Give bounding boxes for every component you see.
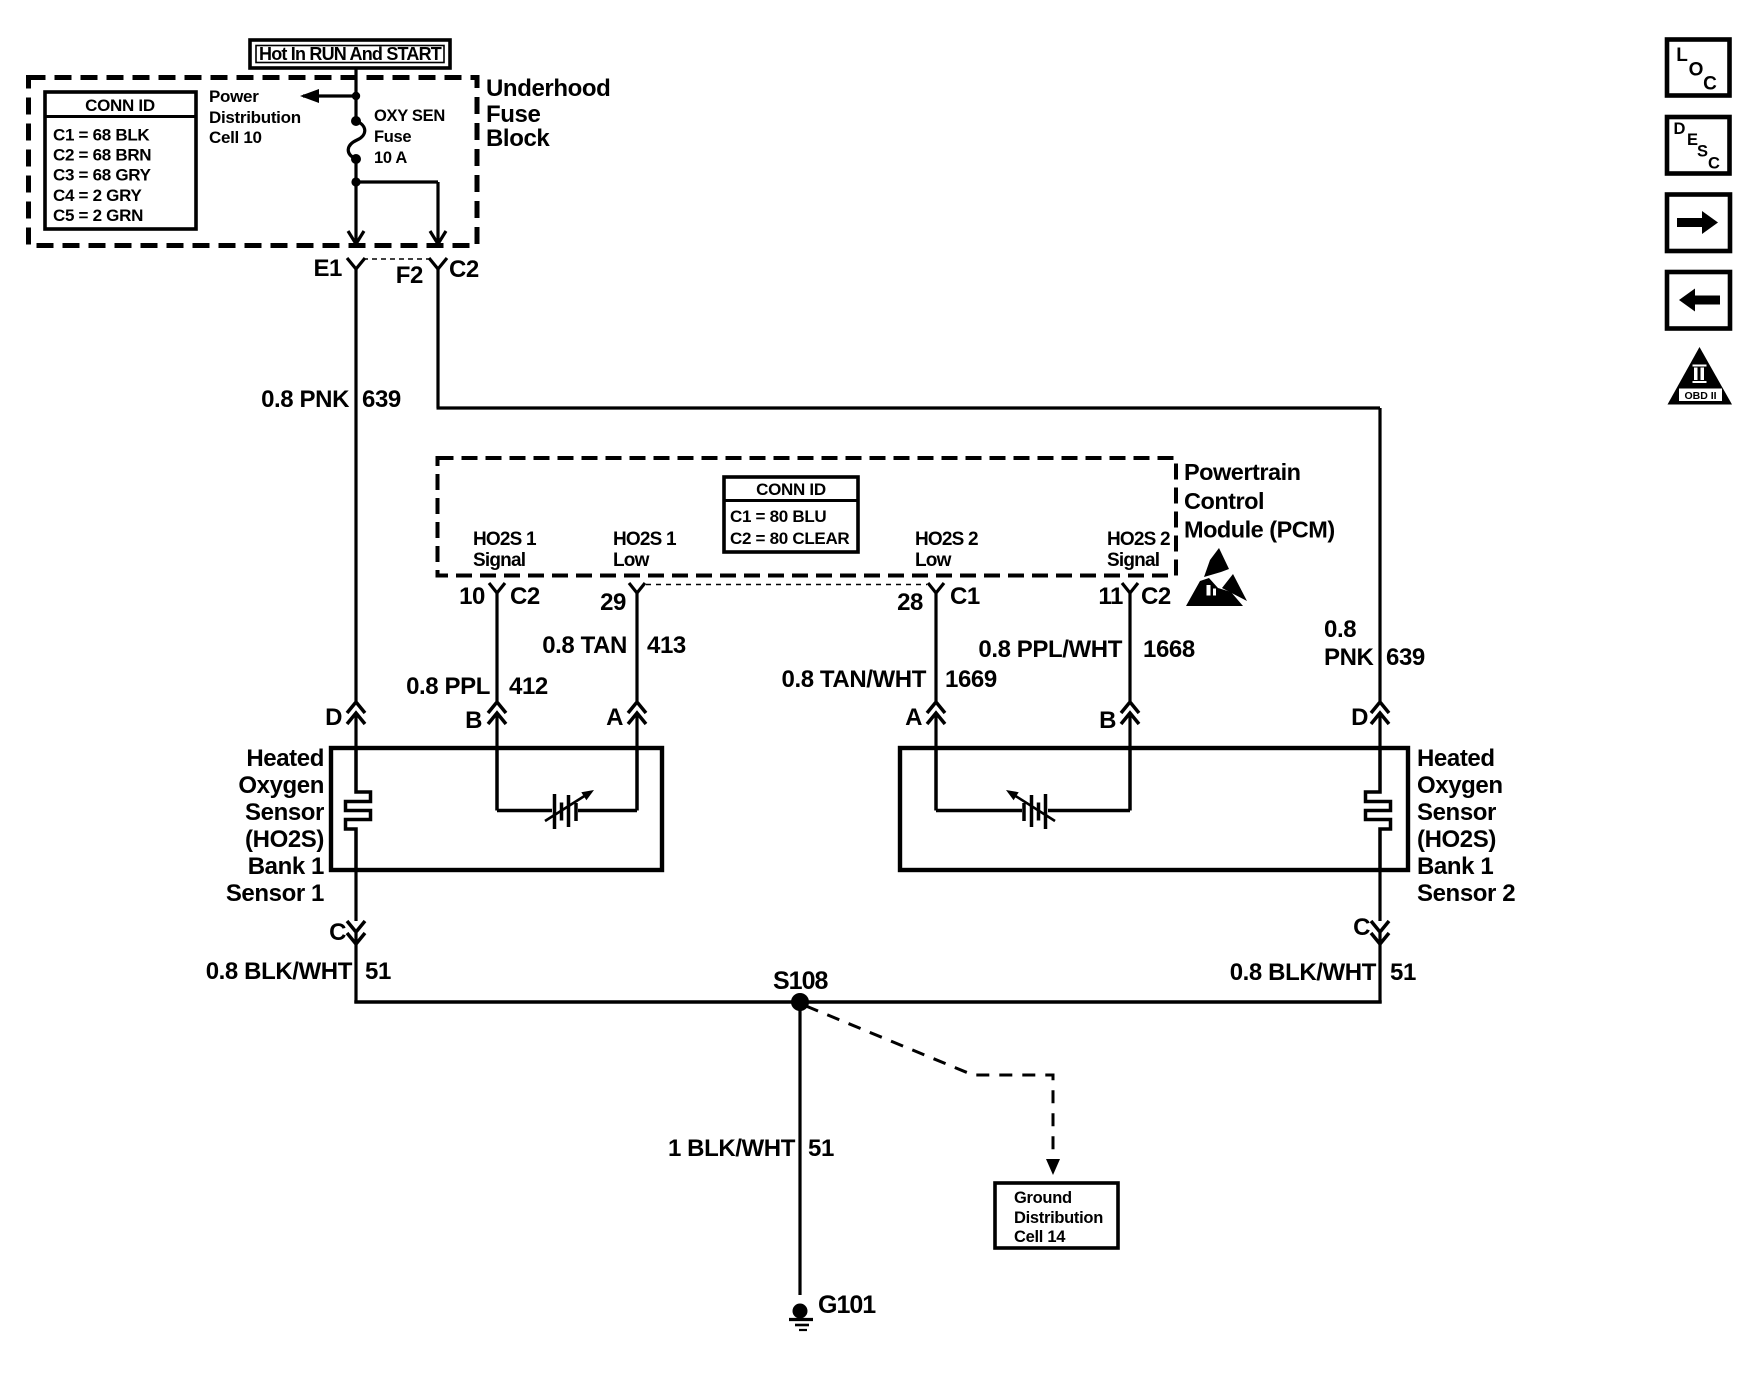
svg-text:D: D [325, 704, 342, 731]
svg-text:Ground: Ground [1014, 1189, 1072, 1207]
wire 0.8 PPL/WHT 1668 [978, 601, 1194, 701]
svg-text:Fuse: Fuse [486, 101, 540, 128]
ESD sensitivity symbol [1186, 548, 1247, 606]
svg-text:A: A [905, 704, 922, 731]
svg-text:Cell 10: Cell 10 [209, 128, 262, 147]
svg-text:0.8 BLK/WHT: 0.8 BLK/WHT [1230, 959, 1377, 986]
svg-text:Block: Block [486, 125, 550, 152]
svg-text:Sensor: Sensor [245, 799, 324, 826]
Underhood Fuse Block dashed enclosure [29, 78, 478, 246]
splice S108 [773, 967, 828, 1011]
right HO2S labels [1417, 745, 1515, 907]
svg-text:C2 = 68 BRN: C2 = 68 BRN [53, 146, 151, 165]
wire from Hot feed down [354, 67, 357, 121]
heater element (left sensor) [346, 749, 371, 870]
svg-text:Sensor: Sensor [1417, 799, 1496, 826]
svg-text:Heated: Heated [246, 745, 324, 772]
connector ID table (fuse block) [45, 92, 196, 229]
svg-text:Oxygen: Oxygen [1417, 772, 1503, 799]
connector C (right sensor) [1353, 870, 1389, 1003]
svg-text:L: L [1676, 45, 1688, 66]
svg-text:Fuse: Fuse [374, 128, 411, 146]
wire arrow to Power Distribution [300, 89, 360, 103]
svg-text:HO2S 1: HO2S 1 [613, 529, 677, 550]
heater circuit resistor (left sensor) [497, 749, 637, 829]
svg-text:0.8 PPL: 0.8 PPL [406, 673, 490, 700]
wire 0.8 PNK 639 (left vertical run) [261, 280, 401, 701]
PCM connector body dashed line [646, 584, 927, 586]
svg-text:OBD II: OBD II [1684, 390, 1716, 402]
connector E1 [313, 255, 365, 282]
PCM pin connector 28 C1 [897, 583, 980, 616]
svg-text:C5 = 2 GRN: C5 = 2 GRN [53, 206, 143, 225]
svg-text:0.8 TAN/WHT: 0.8 TAN/WHT [782, 666, 927, 693]
right HO2S box [900, 748, 1408, 870]
PCM dashed enclosure [438, 458, 1177, 576]
svg-text:Powertrain: Powertrain [1184, 459, 1300, 485]
svg-text:0.8 PNK: 0.8 PNK [261, 386, 350, 413]
power feed box "Hot In RUN And START" [250, 40, 450, 68]
left HO2S labels [226, 745, 324, 907]
heater circuit resistor (right sensor) [936, 749, 1130, 829]
svg-text:11: 11 [1098, 583, 1123, 610]
svg-text:1 BLK/WHT: 1 BLK/WHT [668, 1135, 796, 1162]
svg-text:51: 51 [808, 1135, 834, 1162]
svg-text:O: O [1689, 60, 1704, 81]
connector D (left sensor) [325, 702, 365, 749]
svg-text:639: 639 [1386, 644, 1425, 671]
svg-text:D: D [1674, 120, 1686, 138]
svg-text:CONN ID: CONN ID [85, 96, 155, 115]
svg-text:29: 29 [600, 589, 626, 616]
svg-text:C2 = 80 CLEAR: C2 = 80 CLEAR [730, 529, 849, 548]
Ground Distribution Cell 14 box [995, 1183, 1118, 1248]
svg-text:C: C [329, 919, 346, 946]
svg-text:Low: Low [915, 550, 952, 571]
dashed wire to ground distribution [806, 1006, 1060, 1175]
svg-text:Distribution: Distribution [209, 108, 301, 127]
svg-text:G101: G101 [818, 1291, 876, 1319]
svg-text:Bank 1: Bank 1 [1417, 853, 1493, 880]
svg-text:D: D [1351, 704, 1368, 731]
svg-text:Bank 1: Bank 1 [248, 853, 324, 880]
svg-text:0.8 TAN: 0.8 TAN [542, 632, 627, 659]
connector B (right sensor) [1099, 702, 1139, 749]
connector B (left sensor) [465, 702, 506, 749]
svg-text:C: C [1708, 155, 1720, 173]
svg-text:Heated: Heated [1417, 745, 1495, 772]
PCM pin function labels [473, 529, 1170, 571]
svg-text:Underhood: Underhood [486, 75, 610, 102]
svg-text:1669: 1669 [945, 666, 997, 693]
wire 0.8 TAN/WHT 1669 [782, 601, 997, 701]
svg-text:0.8 BLK/WHT: 0.8 BLK/WHT [206, 958, 353, 985]
wire 0.8 TAN 413 [542, 601, 686, 701]
wire 0.8 PPL 412 [406, 601, 548, 701]
svg-text:412: 412 [509, 673, 548, 700]
svg-text:Oxygen: Oxygen [238, 772, 324, 799]
connector A (left sensor) [606, 702, 646, 749]
svg-text:A: A [606, 704, 623, 731]
wire 0.8 BLK/WHT 51 (right) [1230, 959, 1416, 986]
PCM pin connector 11 C2 [1098, 583, 1171, 610]
svg-text:Control: Control [1184, 488, 1264, 514]
svg-text:C1 = 68 BLK: C1 = 68 BLK [53, 126, 150, 145]
svg-text:HO2S 2: HO2S 2 [1107, 529, 1170, 550]
svg-text:C1: C1 [950, 583, 980, 610]
svg-text:Sensor 1: Sensor 1 [226, 880, 324, 907]
connector ID table (PCM) [724, 477, 858, 552]
svg-text:28: 28 [897, 589, 923, 616]
label Power Distribution Cell 10 [209, 87, 301, 147]
connector D (right sensor) [1351, 702, 1389, 749]
svg-text:0.8 PPL/WHT: 0.8 PPL/WHT [978, 636, 1122, 663]
svg-text:HO2S 1: HO2S 1 [473, 529, 537, 550]
sidebar icon forward arrow [1667, 195, 1730, 252]
svg-text:Power: Power [209, 87, 259, 106]
sidebar icon OBD II triangle [1668, 347, 1733, 405]
svg-text:C: C [1703, 74, 1717, 95]
svg-text:Signal: Signal [473, 550, 525, 571]
svg-text:Module (PCM): Module (PCM) [1184, 517, 1335, 543]
wire 1 BLK/WHT 51 [668, 1002, 834, 1295]
connector C (left sensor) [329, 870, 365, 1003]
svg-text:Signal: Signal [1107, 550, 1159, 571]
svg-text:E1: E1 [313, 255, 342, 282]
fuse OXY SEN 10 A [348, 107, 445, 167]
wire below fuse with branch junction [351, 159, 438, 243]
sidebar icon DESC [1667, 117, 1730, 174]
PCM pin connector 29 [600, 583, 645, 616]
left HO2S box [331, 748, 662, 870]
connector A (right sensor) [905, 702, 945, 749]
svg-text:Hot In RUN And START: Hot In RUN And START [259, 44, 442, 64]
svg-text:C2: C2 [1141, 583, 1171, 610]
wire 0.8 BLK/WHT 51 (left) [206, 958, 391, 985]
ground bus wire [354, 1000, 1381, 1004]
svg-text:PNK: PNK [1324, 644, 1375, 671]
svg-text:Low: Low [613, 550, 650, 571]
svg-text:C2: C2 [449, 256, 479, 283]
svg-text:1668: 1668 [1143, 636, 1195, 663]
svg-text:C4 = 2 GRY: C4 = 2 GRY [53, 186, 142, 205]
svg-text:CONN ID: CONN ID [756, 480, 826, 499]
svg-text:C: C [1353, 914, 1370, 941]
svg-text:Sensor 2: Sensor 2 [1417, 880, 1515, 907]
connector F2 / C2 [396, 256, 479, 289]
svg-text:C2: C2 [510, 583, 540, 610]
svg-text:Cell 14: Cell 14 [1014, 1228, 1066, 1246]
svg-text:10 A: 10 A [374, 149, 407, 167]
sidebar icon LOC [1667, 40, 1730, 96]
svg-text:Distribution: Distribution [1014, 1209, 1103, 1227]
svg-text:S108: S108 [773, 967, 828, 995]
svg-text:C1 = 80 BLU: C1 = 80 BLU [730, 507, 826, 526]
label Powertrain Control Module (PCM) [1184, 459, 1335, 543]
sidebar icon back arrow [1667, 272, 1730, 329]
svg-text:51: 51 [365, 958, 391, 985]
svg-text:C3 = 68 GRY: C3 = 68 GRY [53, 166, 152, 185]
svg-text:639: 639 [362, 386, 401, 413]
svg-text:0.8: 0.8 [1324, 616, 1356, 643]
svg-text:(HO2S): (HO2S) [1417, 826, 1496, 853]
svg-text:F2: F2 [396, 262, 423, 289]
svg-text:51: 51 [1390, 959, 1416, 986]
connector link dashed line [363, 258, 431, 260]
wire PNK feed to right (to PCM side) [437, 280, 1381, 701]
label Underhood Fuse Block [486, 75, 610, 152]
svg-text:10: 10 [459, 583, 485, 610]
svg-text:413: 413 [647, 632, 686, 659]
svg-text:(HO2S): (HO2S) [245, 826, 324, 853]
PCM pin connector 10 C2 [459, 583, 540, 610]
svg-text:B: B [1099, 707, 1116, 734]
heater element (right sensor) [1366, 749, 1391, 870]
arrowhead leaving fuse block (E1) [348, 231, 364, 244]
ground G101 [789, 1291, 876, 1330]
svg-text:HO2S 2: HO2S 2 [915, 529, 978, 550]
svg-text:OXY SEN: OXY SEN [374, 107, 445, 125]
arrowhead leaving fuse block (C2) [430, 231, 446, 244]
svg-text:B: B [465, 707, 482, 734]
wire 0.8 PNK 639 (right) [1324, 616, 1425, 671]
svg-text:S: S [1697, 143, 1708, 161]
